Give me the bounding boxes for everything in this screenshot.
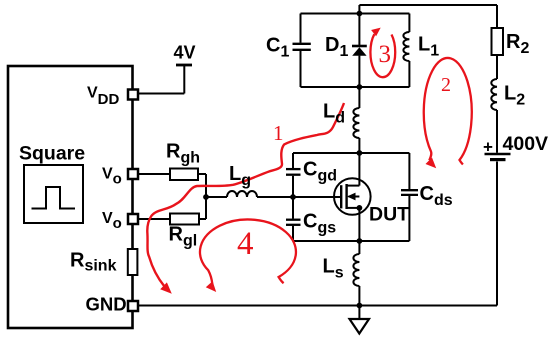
svg-text:4: 4 bbox=[237, 226, 254, 262]
svg-text:DUT: DUT bbox=[369, 204, 409, 226]
svg-text:+: + bbox=[483, 138, 493, 157]
svg-text:GND: GND bbox=[86, 294, 127, 315]
svg-text:400V: 400V bbox=[503, 133, 549, 155]
svg-text:3: 3 bbox=[379, 41, 392, 68]
svg-text:1: 1 bbox=[273, 121, 284, 145]
svg-text:4V: 4V bbox=[174, 43, 196, 63]
svg-text:2: 2 bbox=[441, 74, 451, 96]
svg-text:Square: Square bbox=[19, 143, 85, 165]
